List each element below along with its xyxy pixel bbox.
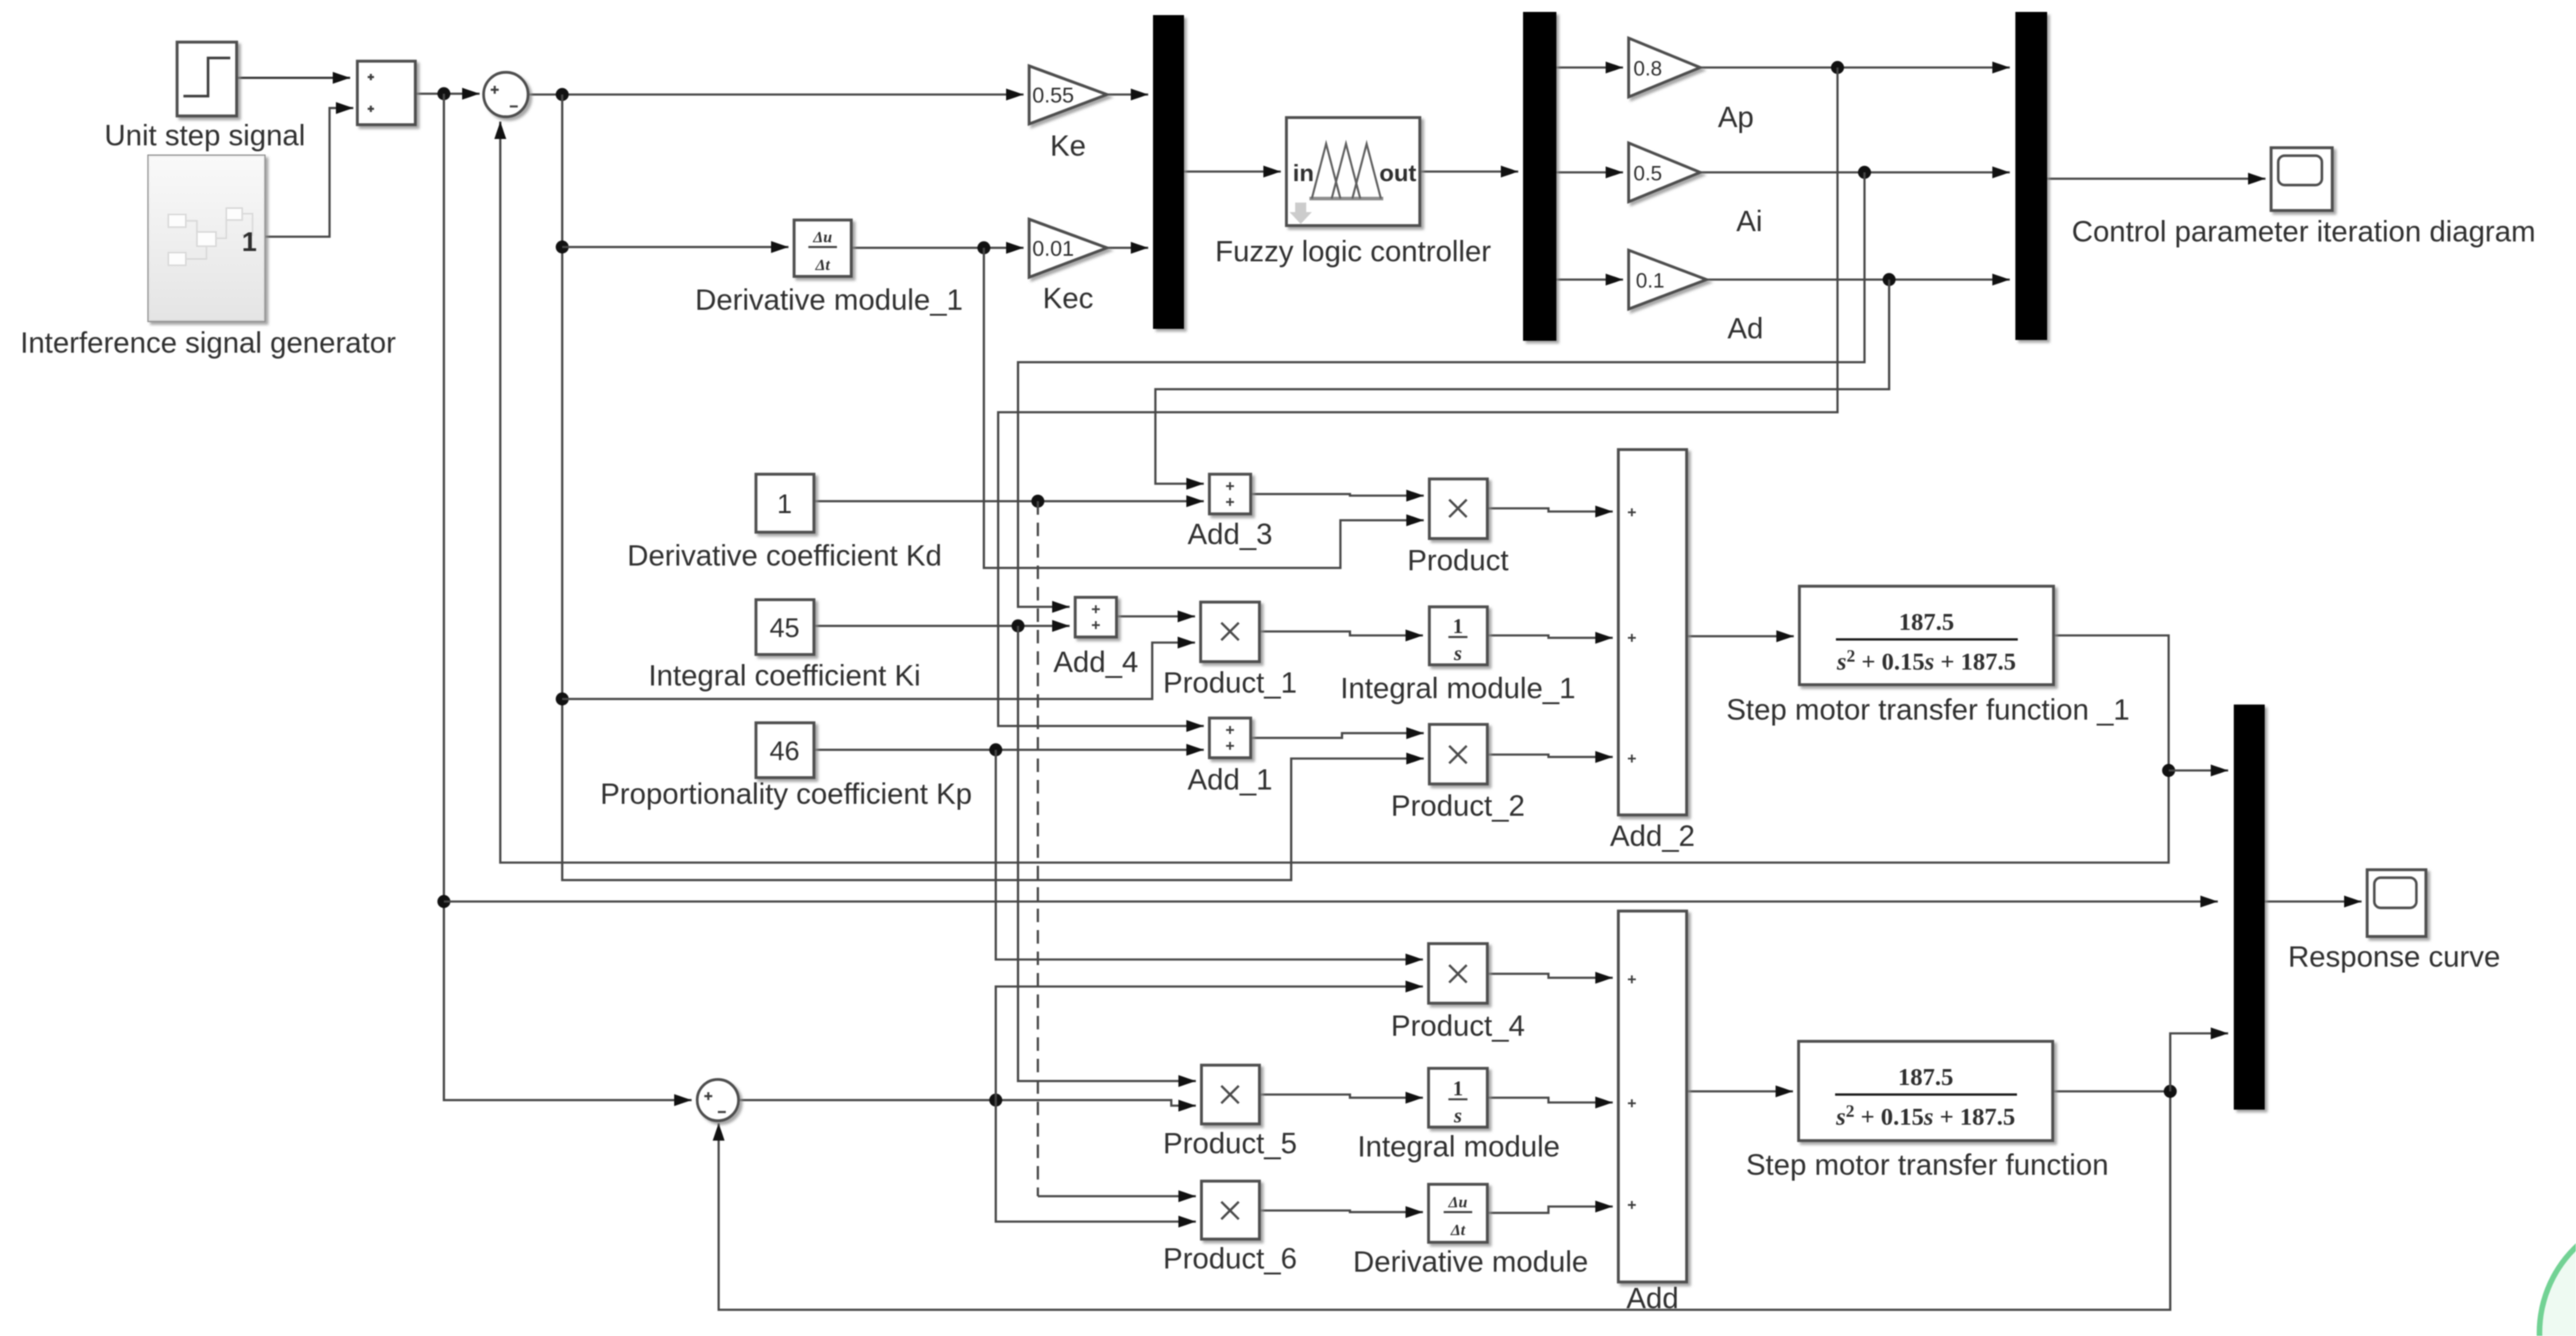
svg-text:Fuzzy logic controller: Fuzzy logic controller	[1215, 235, 1491, 268]
svg-text:s2 + 0.15s + 187.5: s2 + 0.15s + 187.5	[1835, 1101, 2015, 1130]
svg-text:0.01: 0.01	[1032, 237, 1074, 261]
svg-text:Add_2: Add_2	[1610, 820, 1695, 852]
svg-text:Product_1: Product_1	[1163, 666, 1298, 699]
svg-text:Control parameter iteration di: Control parameter iteration diagram	[2072, 215, 2536, 248]
svg-text:Add_4: Add_4	[1054, 646, 1139, 678]
svg-text:Δu: Δu	[812, 229, 832, 246]
svg-text:0.1: 0.1	[1636, 268, 1664, 292]
svg-text:s: s	[1453, 642, 1462, 665]
svg-text:Derivative module: Derivative module	[1353, 1245, 1588, 1278]
svg-text:Integral coefficient Ki: Integral coefficient Ki	[649, 659, 921, 692]
svg-text:Ap: Ap	[1718, 101, 1753, 133]
svg-text:Step motor transfer function _: Step motor transfer function _1	[1726, 693, 2130, 726]
svg-text:Product_4: Product_4	[1391, 1010, 1525, 1042]
svg-text:Δt: Δt	[815, 257, 831, 274]
svg-text:Add_1: Add_1	[1188, 763, 1273, 796]
svg-text:Ke: Ke	[1050, 129, 1086, 162]
svg-text:Ai: Ai	[1737, 205, 1763, 237]
svg-text:187.5: 187.5	[1899, 608, 1954, 635]
svg-text:Add: Add	[1626, 1282, 1679, 1315]
svg-text:45: 45	[769, 613, 800, 643]
svg-text:0.5: 0.5	[1633, 161, 1662, 185]
svg-text:Product_5: Product_5	[1163, 1127, 1298, 1160]
svg-text:Proportionality coefficient Kp: Proportionality coefficient Kp	[600, 778, 972, 810]
svg-text:Unit step signal: Unit step signal	[105, 119, 306, 152]
svg-text:1: 1	[242, 227, 257, 257]
svg-text:46: 46	[769, 736, 800, 766]
svg-text:Step motor transfer function: Step motor transfer function	[1746, 1149, 2109, 1181]
svg-text:Add_3: Add_3	[1188, 518, 1273, 550]
svg-text:Δt: Δt	[1450, 1222, 1467, 1239]
svg-text:out: out	[1379, 160, 1417, 187]
svg-text:0.8: 0.8	[1633, 56, 1662, 80]
svg-text:Integral module: Integral module	[1357, 1130, 1560, 1163]
svg-text:0.55: 0.55	[1032, 83, 1074, 107]
svg-text:Product_6: Product_6	[1163, 1242, 1298, 1275]
svg-text:187.5: 187.5	[1898, 1063, 1953, 1091]
svg-text:Interference signal generator: Interference signal generator	[20, 326, 395, 359]
svg-text:Kec: Kec	[1043, 282, 1093, 315]
svg-text:1: 1	[1453, 615, 1463, 638]
svg-text:s2 + 0.15s + 187.5: s2 + 0.15s + 187.5	[1836, 646, 2016, 675]
svg-text:Product_2: Product_2	[1391, 790, 1525, 822]
svg-text:1: 1	[777, 489, 792, 519]
svg-text:in: in	[1293, 160, 1314, 187]
svg-text:Response curve: Response curve	[2288, 940, 2500, 973]
svg-text:Δu: Δu	[1448, 1194, 1467, 1211]
svg-text:Derivative coefficient Kd: Derivative coefficient Kd	[627, 539, 942, 572]
svg-text:Derivative module_1: Derivative module_1	[695, 284, 962, 316]
svg-text:Product: Product	[1407, 544, 1509, 577]
svg-text:1: 1	[1453, 1077, 1463, 1100]
svg-text:Ad: Ad	[1727, 312, 1763, 345]
svg-text:s: s	[1453, 1104, 1462, 1127]
svg-text:Integral module_1: Integral module_1	[1340, 672, 1575, 705]
